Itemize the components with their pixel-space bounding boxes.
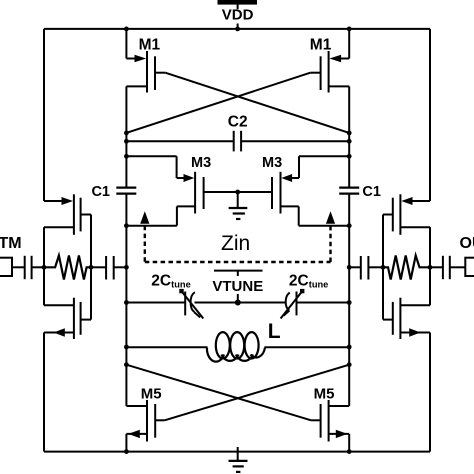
svg-text:VDD: VDD [222, 7, 254, 24]
svg-text:M5: M5 [141, 385, 162, 402]
svg-text:M5: M5 [314, 385, 335, 402]
svg-text:C1: C1 [362, 184, 381, 200]
svg-text:VTUNE: VTUNE [212, 278, 263, 295]
svg-text:Zin: Zin [221, 232, 250, 255]
svg-text:M3: M3 [262, 155, 282, 171]
svg-text:TM: TM [0, 235, 22, 252]
svg-text:C2: C2 [228, 113, 248, 130]
svg-text:OUT: OUT [460, 235, 474, 252]
svg-text:C1: C1 [91, 184, 110, 200]
svg-text:M1: M1 [139, 36, 161, 53]
svg-text:M3: M3 [191, 155, 211, 171]
svg-text:M1: M1 [310, 36, 332, 53]
svg-text:L: L [268, 320, 281, 343]
